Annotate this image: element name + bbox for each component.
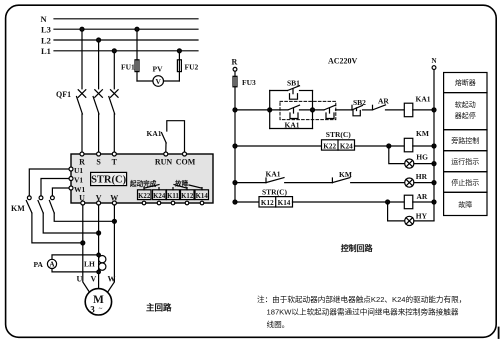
svg-text:R: R: [232, 58, 238, 67]
terminal W1: [69, 185, 86, 194]
fuse FU3: [233, 76, 256, 87]
svg-text:K12: K12: [261, 199, 274, 207]
wire row4 to coil: [293, 200, 405, 204]
svg-text:STR(C): STR(C): [91, 175, 127, 186]
relay contact KA1 self-hold a: [270, 105, 324, 129]
svg-text:FU3: FU3: [242, 78, 256, 87]
terminal R: [79, 152, 85, 167]
current transformer LH: [84, 256, 106, 271]
node N bus: [41, 14, 199, 24]
svg-text:运行指示: 运行指示: [451, 157, 479, 166]
relay contact AR (NC): [373, 96, 405, 110]
svg-text:K14: K14: [278, 199, 291, 207]
svg-text:U1: U1: [74, 166, 83, 175]
label fault: [175, 179, 189, 188]
svg-text:N: N: [41, 14, 48, 24]
contactor KM pole 1: [26, 169, 85, 245]
terminal K14: [195, 190, 209, 205]
svg-text:HY: HY: [416, 211, 428, 220]
contactor KM pole 2: [38, 179, 101, 236]
coil AR: [404, 192, 434, 209]
terminal S: [96, 152, 101, 167]
terminal U1: [69, 166, 83, 175]
wire row3 from R rail: [235, 182, 266, 184]
svg-text:KA1: KA1: [147, 129, 162, 138]
legend box stop indicator: [444, 172, 487, 193]
svg-text:FU2: FU2: [185, 63, 199, 72]
svg-text:线圈。: 线圈。: [267, 319, 290, 329]
contact K22-K24: [144, 185, 159, 190]
svg-text:K24: K24: [153, 193, 166, 200]
svg-text:SB2: SB2: [353, 98, 366, 107]
wire V phase to motor: [98, 205, 100, 289]
wire phase C drop: [112, 49, 116, 89]
coil KA1: [404, 95, 434, 117]
soft starter unit STR(C): [71, 154, 213, 203]
svg-text:KA1: KA1: [266, 170, 281, 179]
svg-text:K22: K22: [323, 142, 336, 150]
wire row2 to coil: [355, 144, 405, 148]
relay contact KA1 self-hold b: [280, 101, 352, 119]
terminal K24: [153, 190, 167, 205]
terminal U: [79, 194, 85, 206]
label KM: [11, 204, 25, 213]
svg-text:~: ~: [99, 305, 103, 313]
svg-text:S: S: [96, 158, 101, 167]
svg-text:V: V: [155, 77, 161, 86]
svg-text:V1: V1: [74, 175, 83, 184]
svg-text:软起动: 软起动: [455, 100, 476, 109]
wire row1 from R rail: [235, 108, 272, 112]
svg-text:故障: 故障: [458, 200, 472, 209]
svg-text:PA: PA: [34, 260, 44, 269]
svg-text:COM: COM: [176, 158, 196, 167]
svg-text:KA1: KA1: [285, 120, 300, 129]
node L1 bus: [41, 46, 198, 56]
svg-text:PV: PV: [153, 65, 164, 74]
button SB2 stop: [352, 98, 373, 116]
legend box fuse: [444, 73, 487, 93]
svg-text:L3: L3: [41, 25, 51, 35]
svg-text:W1: W1: [74, 185, 86, 194]
svg-text:HG: HG: [416, 153, 428, 162]
svg-text:主回路: 主回路: [146, 303, 172, 313]
svg-text:L1: L1: [41, 46, 51, 56]
svg-text:3: 3: [90, 305, 95, 315]
wire U phase to motor: [83, 205, 92, 295]
svg-text:AR: AR: [417, 192, 428, 201]
svg-text:熔断器: 熔断器: [455, 78, 476, 87]
svg-text:KM: KM: [416, 129, 429, 138]
svg-text:L2: L2: [41, 35, 51, 45]
label start-complete: [129, 179, 157, 188]
terminal COM: [176, 152, 196, 167]
label W motor lead: [108, 275, 116, 284]
wire W phase to motor: [106, 205, 115, 295]
button SB1 branch: [270, 79, 313, 129]
lamp HY: [388, 202, 434, 225]
label control circuit: [341, 243, 374, 253]
svg-text:AC220V: AC220V: [328, 57, 358, 66]
contact STR(C) K12-K14: [259, 188, 293, 208]
terminal T: [112, 152, 118, 167]
lamp HR: [405, 172, 434, 187]
terminal V: [96, 194, 102, 206]
svg-text:K12: K12: [181, 193, 194, 200]
ammeter PA: [34, 253, 101, 274]
wire row2 from R rail: [235, 145, 322, 147]
svg-text:LH: LH: [84, 260, 95, 269]
fuse FU2: [177, 49, 198, 81]
terminal V1: [69, 175, 83, 184]
svg-text:KA1: KA1: [416, 95, 431, 104]
wire phase A drop: [80, 27, 84, 89]
fuse FU1: [121, 27, 139, 81]
wire phase B drop: [97, 38, 101, 89]
svg-text:187KW以上软起动器需通过中间继电器来控制旁路接触器: 187KW以上软起动器需通过中间继电器来控制旁路接触器: [267, 307, 459, 317]
contactor KM pole 3: [49, 188, 116, 223]
legend box run indicator: [444, 151, 487, 172]
label V motor lead: [91, 275, 97, 284]
svg-text:旁路控制: 旁路控制: [451, 136, 479, 145]
node R rail: [232, 58, 238, 205]
svg-text:K11: K11: [167, 193, 179, 200]
svg-text:N: N: [432, 57, 437, 65]
contactor contact KM (NC) row3: [332, 170, 404, 183]
breaker QF1: [56, 90, 118, 152]
terminal K22: [138, 190, 152, 205]
svg-text:FU1: FU1: [121, 63, 135, 72]
svg-text:注：由于软起动器内部继电器触点K22、K24的驱动能力有限，: 注：由于软起动器内部继电器触点K22、K24的驱动能力有限，: [257, 294, 466, 304]
svg-text:K22: K22: [138, 193, 151, 200]
svg-text:KM: KM: [11, 204, 25, 213]
relay contact KA1 (NC) row3: [266, 170, 333, 183]
legend box fault: [444, 192, 487, 215]
svg-text:QF1: QF1: [56, 90, 71, 99]
node L3 bus: [41, 25, 198, 35]
terminal K11: [167, 190, 180, 205]
svg-text:器起停: 器起停: [455, 111, 476, 120]
coil KM: [404, 129, 434, 152]
terminal W: [110, 194, 118, 206]
motor M: [85, 289, 111, 315]
svg-text:控制回路: 控制回路: [341, 243, 374, 253]
lamp HG: [389, 146, 434, 168]
node L2 bus: [41, 35, 198, 45]
contact K11-K12-K14: [173, 185, 202, 190]
label AC220V: [328, 57, 358, 66]
svg-text:W: W: [108, 275, 116, 284]
terminal K12: [181, 190, 195, 205]
contact STR(C) K22-K24: [322, 130, 355, 150]
svg-text:RUN: RUN: [155, 158, 173, 167]
svg-text:STR(C): STR(C): [262, 188, 288, 197]
note text: [257, 294, 466, 329]
svg-text:STR(C): STR(C): [326, 130, 352, 139]
svg-text:停止指示: 停止指示: [451, 178, 479, 187]
wire row4 from R rail: [235, 201, 259, 203]
legend box soft starter start stop: [444, 93, 487, 130]
label U motor lead: [77, 275, 83, 284]
svg-text:K24: K24: [340, 142, 353, 150]
svg-text:V: V: [91, 275, 97, 284]
node N rail: [432, 57, 437, 221]
svg-text:T: T: [112, 158, 118, 167]
svg-text:AR: AR: [378, 96, 389, 105]
voltmeter PV: [137, 65, 179, 87]
relay contact KA1 (to RUN): [147, 121, 185, 152]
svg-text:U: U: [77, 275, 83, 284]
terminal RUN: [155, 152, 173, 167]
label main circuit: [146, 303, 172, 313]
legend box bypass control: [444, 130, 487, 151]
svg-text:K14: K14: [196, 193, 209, 200]
svg-text:A: A: [49, 261, 54, 269]
svg-text:HR: HR: [416, 172, 428, 181]
